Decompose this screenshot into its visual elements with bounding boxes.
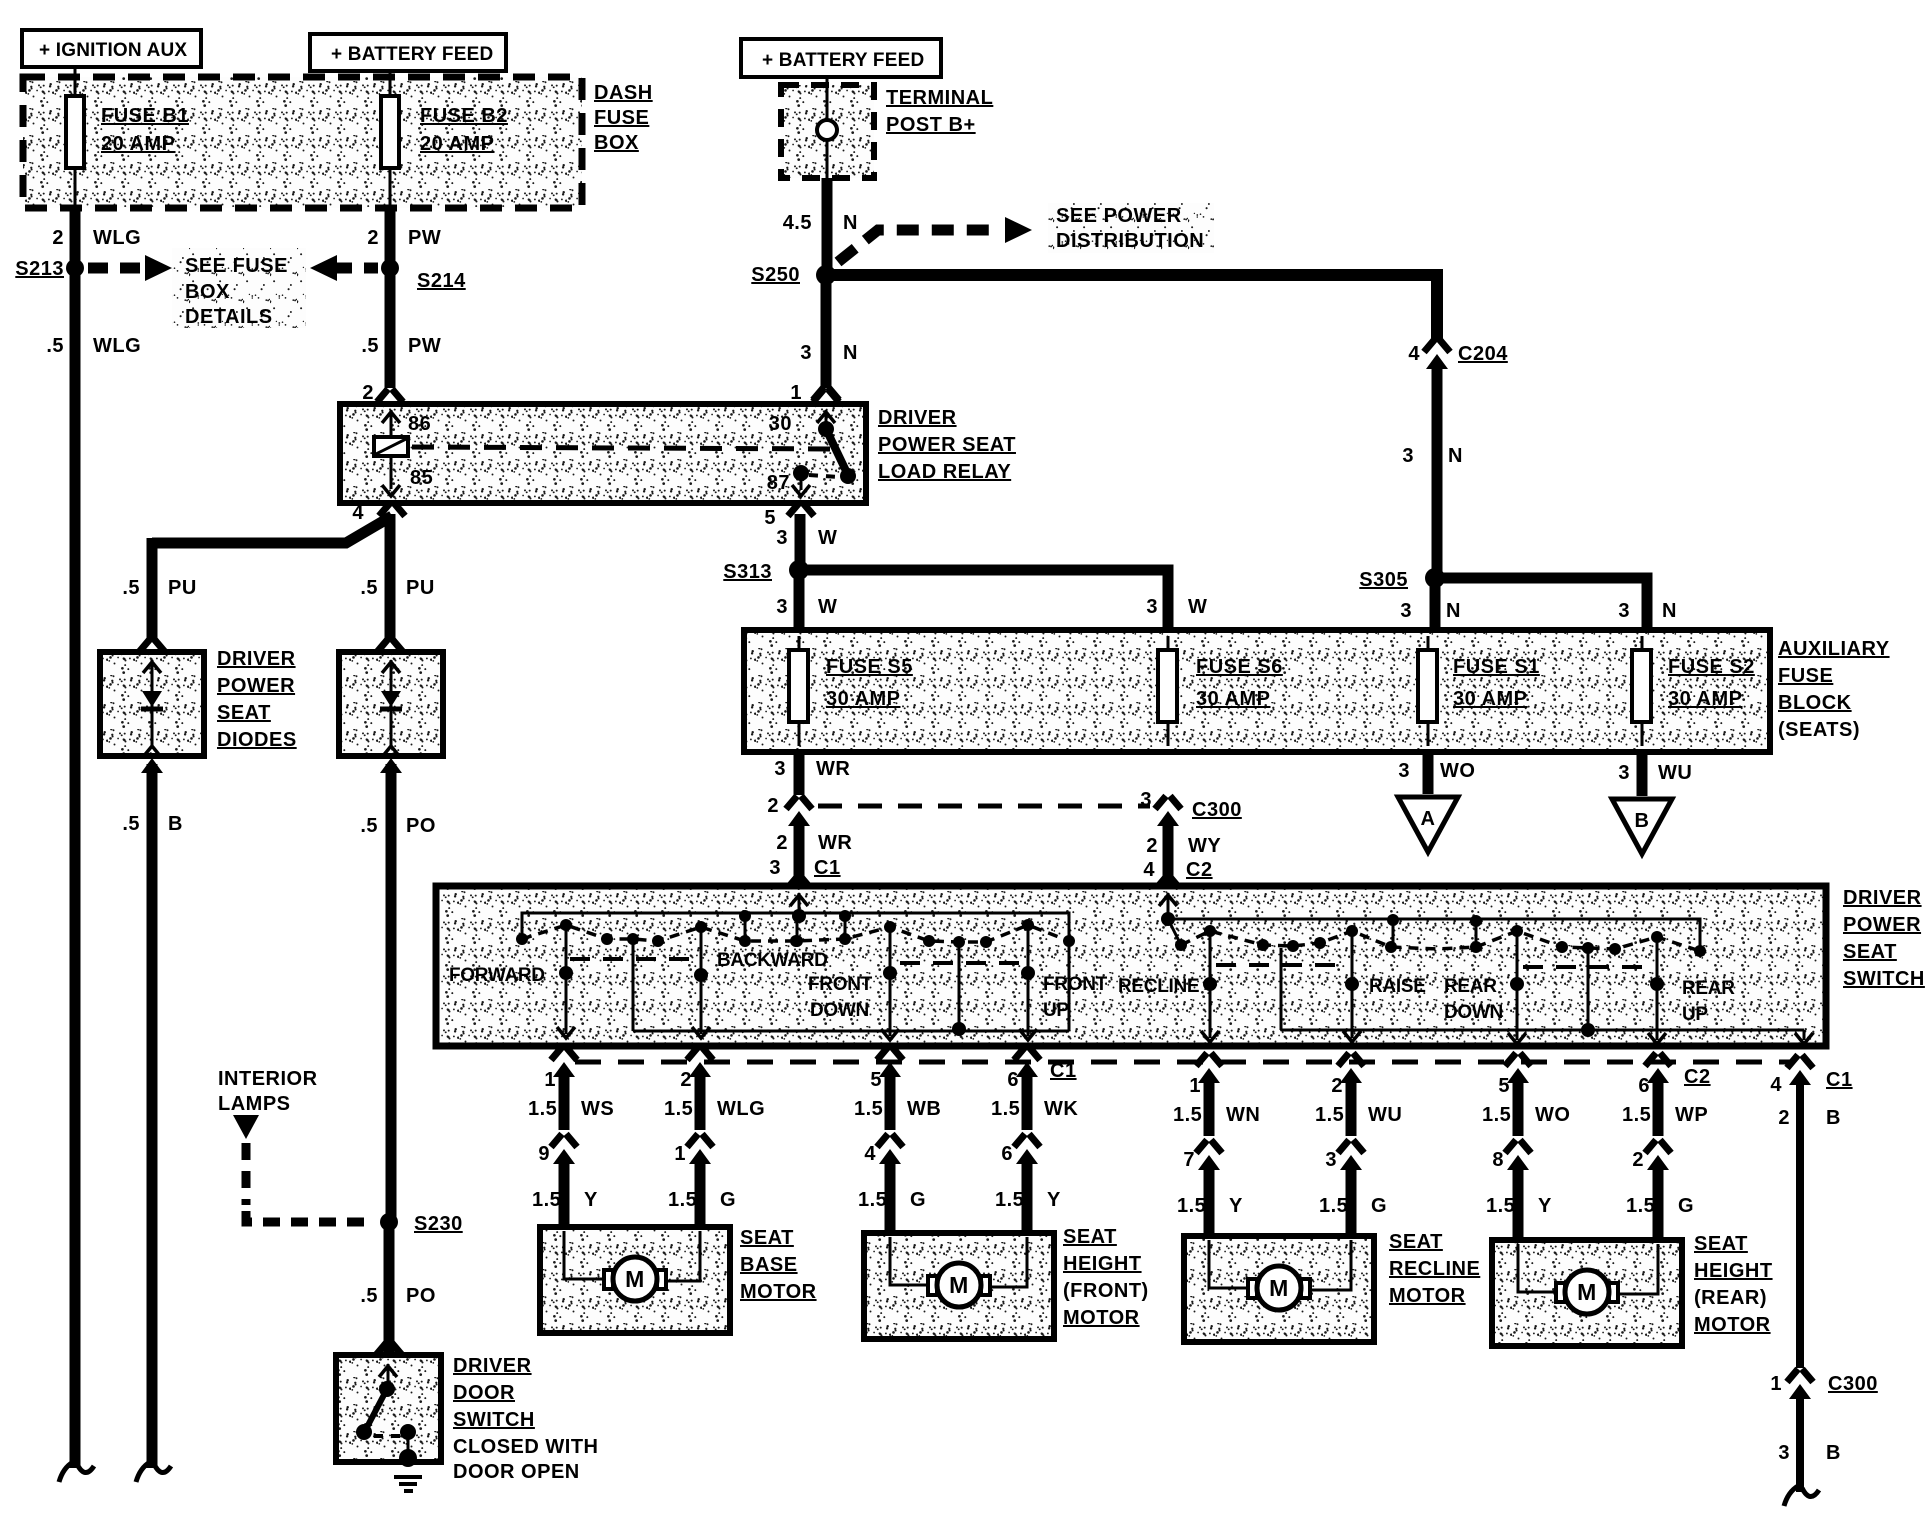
svg-text:WU: WU <box>1368 1104 1402 1126</box>
fuse S1 <box>1418 636 1437 746</box>
wire label .5 PW <box>361 335 441 357</box>
wire label 3 N upper <box>1402 445 1463 467</box>
svg-text:3: 3 <box>1400 600 1412 622</box>
svg-text:1.5: 1.5 <box>528 1098 557 1120</box>
relay contact <box>818 421 856 484</box>
fuse S6 value label <box>1196 656 1283 710</box>
door switch connector in <box>376 1342 402 1355</box>
fuse block label <box>1778 638 1890 741</box>
seat recline motor label <box>1389 1231 1480 1307</box>
wire C204 to S305 (3 N) <box>1432 364 1443 574</box>
wire S230 to door switch (.5 PO) <box>384 1227 395 1352</box>
wire label 4.5 N <box>783 212 858 234</box>
svg-text:G: G <box>910 1189 926 1211</box>
switch output REAR DOWN <box>1444 936 1526 1044</box>
wire label .5 PU (right) <box>360 577 434 599</box>
wire C300 to body ground (3 B) <box>1796 1394 1804 1492</box>
switch feed bus left <box>522 910 1069 938</box>
svg-text:C300: C300 <box>1192 799 1242 821</box>
switch pin 2 WLG wire and connectors <box>664 1047 765 1231</box>
svg-text:6: 6 <box>1007 1069 1019 1091</box>
svg-text:3: 3 <box>1325 1149 1337 1171</box>
connector C300 right <box>1155 796 1181 826</box>
svg-text:1.5: 1.5 <box>1486 1195 1515 1217</box>
switch pin 2 WU wire and connectors <box>1315 1053 1402 1237</box>
wire label .5 PU (left) <box>122 577 196 599</box>
terminal post circle <box>817 77 837 178</box>
svg-text:WLG: WLG <box>93 335 141 357</box>
svg-text:S305: S305 <box>1359 569 1408 591</box>
svg-text:S250: S250 <box>751 264 800 286</box>
relay pin 4 connector <box>352 502 405 524</box>
relay pin 85 <box>382 456 433 496</box>
svg-text:2: 2 <box>1146 835 1158 857</box>
svg-text:Y: Y <box>1538 1195 1552 1217</box>
switch output FRONT UP <box>1019 930 1108 1040</box>
fuse B1 value label <box>101 105 189 155</box>
diode D2 connector in <box>377 639 403 652</box>
svg-text:PU: PU <box>168 577 197 599</box>
diode D2 symbol <box>380 660 402 757</box>
door switch label <box>453 1355 599 1483</box>
svg-text:B: B <box>1826 1442 1841 1464</box>
svg-text:N: N <box>1448 445 1463 467</box>
svg-text:PU: PU <box>406 577 435 599</box>
fuse S5 <box>789 636 808 746</box>
svg-text:DISTRIBUTION: DISTRIBUTION <box>1056 230 1204 252</box>
svg-text:1.5: 1.5 <box>1177 1195 1206 1217</box>
svg-text:FUSE: FUSE <box>594 107 649 129</box>
wire pin4 to C300 (2 B) <box>1796 1080 1804 1368</box>
svg-text:DOOR OPEN: DOOR OPEN <box>453 1461 580 1483</box>
svg-text:30 AMP: 30 AMP <box>1196 688 1271 710</box>
wire label 2 WR <box>776 832 852 854</box>
interior lamps arrow <box>233 1115 259 1139</box>
svg-text:N: N <box>1662 600 1677 622</box>
wire S250 to C204 (N) <box>832 275 1437 342</box>
svg-text:2: 2 <box>1632 1149 1644 1171</box>
switch dashed bar right <box>1216 965 1653 967</box>
fuse S2 <box>1632 636 1651 746</box>
svg-text:N: N <box>843 342 858 364</box>
svg-text:DRIVER: DRIVER <box>878 407 957 429</box>
svg-text:3: 3 <box>1402 445 1414 467</box>
svg-text:WR: WR <box>816 758 850 780</box>
node S213 <box>15 258 84 280</box>
svg-text:BACKWARD: BACKWARD <box>717 950 828 971</box>
svg-text:20 AMP: 20 AMP <box>101 133 176 155</box>
svg-text:POWER SEAT: POWER SEAT <box>878 434 1016 456</box>
svg-text:MOTOR: MOTOR <box>740 1281 817 1303</box>
svg-text:FRONT: FRONT <box>1043 974 1108 995</box>
seat height rear motor label <box>1694 1233 1773 1336</box>
switch feed C1 entry <box>790 893 808 947</box>
switch pins dashed connector line <box>575 1060 1790 1065</box>
svg-text:FUSE S2: FUSE S2 <box>1668 656 1755 678</box>
svg-text:4: 4 <box>1408 343 1420 365</box>
svg-text:3: 3 <box>1778 1442 1790 1464</box>
wire label 2 WY <box>1146 835 1221 857</box>
svg-text:BOX: BOX <box>185 281 230 303</box>
svg-text:C2: C2 <box>1684 1066 1711 1088</box>
wire fuse S5 out (3 WR) <box>794 752 805 795</box>
svg-text:1.5: 1.5 <box>1482 1104 1511 1126</box>
seat base motor M1 <box>540 1227 730 1333</box>
switch pin 5 WO wire and connectors <box>1482 1053 1570 1237</box>
svg-text:UP: UP <box>1682 1004 1708 1025</box>
node + BATTERY FEED (left) <box>310 34 506 71</box>
svg-text:(REAR): (REAR) <box>1694 1287 1767 1309</box>
svg-text:G: G <box>720 1189 736 1211</box>
svg-text:DRIVER: DRIVER <box>217 648 296 670</box>
connector C300 labels <box>1140 789 1241 821</box>
svg-text:.5: .5 <box>360 815 378 837</box>
svg-text:(SEATS): (SEATS) <box>1778 719 1860 741</box>
svg-text:FORWARD: FORWARD <box>449 965 545 986</box>
seat height front motor label <box>1063 1226 1149 1329</box>
switch feed bus right <box>1168 914 1700 946</box>
svg-text:WR: WR <box>818 832 852 854</box>
svg-text:WS: WS <box>581 1098 614 1120</box>
switch movable contact dashed left <box>516 919 1075 948</box>
relay driver power seat load relay box <box>340 404 866 503</box>
switch output BACKWARD <box>694 932 828 1034</box>
connector C2 label (pin 6 right) <box>1684 1066 1711 1088</box>
svg-text:POST B+: POST B+ <box>886 114 976 136</box>
relay pin 30 <box>769 410 835 435</box>
svg-text:4: 4 <box>352 502 364 524</box>
wire label 3 WU <box>1618 762 1692 784</box>
svg-text:3: 3 <box>1618 762 1630 784</box>
relay pin 5 connector <box>764 503 814 529</box>
switch pin 1 WN wire and connectors <box>1173 1053 1260 1237</box>
svg-text:1.5: 1.5 <box>664 1098 693 1120</box>
svg-text:C2: C2 <box>1186 859 1213 881</box>
fuse S2 value label <box>1668 656 1755 710</box>
svg-text:4: 4 <box>1143 859 1155 881</box>
svg-text:5: 5 <box>764 507 776 529</box>
svg-text:SEAT: SEAT <box>1389 1231 1443 1253</box>
svg-text:SEAT: SEAT <box>217 702 271 724</box>
svg-text:WY: WY <box>1188 835 1221 857</box>
svg-text:FUSE B2: FUSE B2 <box>420 105 508 127</box>
wire label 3 N feed <box>800 342 858 364</box>
svg-text:2: 2 <box>680 1069 692 1091</box>
fuse S6 <box>1158 636 1177 746</box>
wire S250 to relay pin 1 (3 N) <box>813 281 839 400</box>
switch output RAISE <box>1343 936 1426 1042</box>
svg-text:WLG: WLG <box>93 227 141 249</box>
wire relay pin 5 to S313 (3 W) <box>795 514 806 566</box>
wire diode 2 out (.5 PO) <box>380 758 402 1218</box>
svg-text:MOTOR: MOTOR <box>1063 1307 1140 1329</box>
wire label .5 B <box>122 813 183 835</box>
svg-text:1.5: 1.5 <box>668 1189 697 1211</box>
wire relay 85 to diode 2 (.5 PU) <box>385 514 396 642</box>
note SEE FUSE BOX DETAILS <box>172 248 306 328</box>
svg-text:WN: WN <box>1226 1104 1260 1126</box>
svg-text:30 AMP: 30 AMP <box>1668 688 1743 710</box>
svg-text:HEIGHT: HEIGHT <box>1694 1260 1773 1282</box>
svg-text:WO: WO <box>1440 760 1475 782</box>
diode D1 connector in <box>139 639 165 652</box>
fuse B1 <box>66 96 84 168</box>
svg-text:DOWN: DOWN <box>810 1000 869 1021</box>
wire label 2 WLG <box>52 227 141 249</box>
node + BATTERY FEED (center) <box>741 39 941 77</box>
switch lower link right <box>1281 948 1813 1044</box>
svg-text:SWITCH: SWITCH <box>453 1409 535 1431</box>
svg-text:BASE: BASE <box>740 1254 798 1276</box>
svg-text:1.5: 1.5 <box>1626 1195 1655 1217</box>
svg-text:G: G <box>1678 1195 1694 1217</box>
svg-text:85: 85 <box>410 467 433 489</box>
connector B triangle <box>1612 799 1672 854</box>
note SEE POWER DISTRIBUTION <box>1048 203 1214 253</box>
svg-text:AUXILIARY: AUXILIARY <box>1778 638 1890 660</box>
svg-text:G: G <box>1371 1195 1387 1217</box>
switch output REAR UP <box>1648 941 1735 1044</box>
svg-text:7: 7 <box>1183 1149 1195 1171</box>
svg-text:3: 3 <box>774 758 786 780</box>
switch pin 6 WK wire and connectors <box>991 1047 1078 1231</box>
svg-text:3: 3 <box>1618 600 1630 622</box>
svg-text:30 AMP: 30 AMP <box>1453 688 1528 710</box>
svg-text:SEE FUSE: SEE FUSE <box>185 255 288 277</box>
svg-text:WU: WU <box>1658 762 1692 784</box>
svg-text:1.5: 1.5 <box>1173 1104 1202 1126</box>
svg-text:DRIVER: DRIVER <box>453 1355 532 1377</box>
terminal post label <box>886 87 993 136</box>
svg-text:DASH: DASH <box>594 82 653 104</box>
svg-text:2: 2 <box>1331 1075 1343 1097</box>
svg-text:3: 3 <box>1398 760 1410 782</box>
svg-text:FUSE S5: FUSE S5 <box>826 656 913 678</box>
door switch contacts <box>356 1364 416 1458</box>
svg-text:SEAT: SEAT <box>1843 941 1897 963</box>
svg-text:.5: .5 <box>46 335 64 357</box>
svg-text:4.5: 4.5 <box>783 212 812 234</box>
interior lamps label <box>218 1068 318 1115</box>
seat height rear motor M4 <box>1492 1240 1682 1346</box>
svg-text:M: M <box>625 1266 645 1292</box>
switch dashed bar left <box>570 959 1024 963</box>
ground <box>394 1449 422 1491</box>
svg-text:3: 3 <box>776 527 788 549</box>
wire C300 to switch C2 (WY) <box>1163 821 1174 883</box>
wire label .5 WLG <box>46 335 141 357</box>
diode D1 symbol <box>141 660 163 757</box>
wire label 3 N (S1) <box>1400 600 1461 622</box>
svg-text:MOTOR: MOTOR <box>1389 1285 1466 1307</box>
svg-text:1.5: 1.5 <box>854 1098 883 1120</box>
svg-text:8: 8 <box>1492 1149 1504 1171</box>
svg-text:4: 4 <box>1770 1074 1782 1096</box>
svg-text:DOOR: DOOR <box>453 1382 515 1404</box>
svg-text:C1: C1 <box>1050 1060 1077 1082</box>
switch lower link left <box>633 944 1069 1036</box>
svg-text:2: 2 <box>362 382 374 404</box>
svg-text:WK: WK <box>1044 1098 1078 1120</box>
svg-text:PW: PW <box>408 227 441 249</box>
svg-text:B: B <box>168 813 183 835</box>
wire terminal post to S250 (4.5 N) <box>822 178 833 270</box>
svg-text:DIODES: DIODES <box>217 729 297 751</box>
svg-text:SEAT: SEAT <box>1063 1226 1117 1248</box>
svg-text:A: A <box>1421 808 1436 830</box>
wire fuse S2 out (3 WU) <box>1637 752 1648 796</box>
svg-text:W: W <box>818 596 837 618</box>
svg-text:3: 3 <box>1140 789 1152 811</box>
svg-text:+ IGNITION AUX: + IGNITION AUX <box>39 40 187 61</box>
svg-text:1: 1 <box>674 1143 686 1165</box>
svg-text:20 AMP: 20 AMP <box>420 133 495 155</box>
svg-text:FRONT: FRONT <box>808 974 873 995</box>
svg-text:1: 1 <box>544 1069 556 1091</box>
svg-text:1.5: 1.5 <box>1315 1104 1344 1126</box>
wire end hook second <box>136 1462 171 1482</box>
wire label .5 PO <box>360 815 436 837</box>
svg-text:1.5: 1.5 <box>991 1098 1020 1120</box>
seat recline motor M3 <box>1184 1236 1374 1342</box>
svg-text:WO: WO <box>1535 1104 1570 1126</box>
svg-text:M: M <box>1269 1275 1289 1301</box>
svg-text:TERMINAL: TERMINAL <box>886 87 993 109</box>
svg-text:RECLINE: RECLINE <box>1389 1258 1480 1280</box>
svg-text:(FRONT): (FRONT) <box>1063 1280 1149 1302</box>
relay coil dashed link <box>412 447 842 449</box>
svg-text:M: M <box>1577 1279 1597 1305</box>
svg-text:INTERIOR: INTERIOR <box>218 1068 318 1090</box>
dashed arrow to power distribution note <box>838 217 1032 262</box>
wire diode 1 out (.5 B) <box>141 758 163 1468</box>
diode label DRIVER POWER SEAT DIODES <box>217 648 297 751</box>
switch output RECLINE <box>1118 936 1219 1042</box>
svg-text:5: 5 <box>870 1069 882 1091</box>
svg-text:W: W <box>818 527 837 549</box>
node + IGNITION AUX feed <box>22 30 201 67</box>
switch movable contact dashed right <box>1175 925 1706 957</box>
switch pin 6 WP wire and connectors <box>1622 1053 1708 1237</box>
switch output FRONT DOWN <box>808 932 899 1040</box>
svg-text:UP: UP <box>1043 1000 1069 1021</box>
svg-text:MOTOR: MOTOR <box>1694 1314 1771 1336</box>
svg-text:87: 87 <box>767 472 790 494</box>
svg-text:.5: .5 <box>360 577 378 599</box>
svg-text:C204: C204 <box>1458 343 1508 365</box>
wire label 2 PW <box>367 227 441 249</box>
wire fuse B1 to S213 (2 WLG) <box>74 168 77 268</box>
svg-text:6: 6 <box>1638 1075 1650 1097</box>
switch backward arrow <box>692 1027 710 1038</box>
svg-text:SEAT: SEAT <box>740 1227 794 1249</box>
svg-text:1.5: 1.5 <box>1319 1195 1348 1217</box>
svg-text:REAR: REAR <box>1682 978 1735 999</box>
svg-text:1.5: 1.5 <box>858 1189 887 1211</box>
fuse S1 value label <box>1453 656 1540 710</box>
dash fuse box label <box>594 82 653 154</box>
svg-text:POWER: POWER <box>217 675 295 697</box>
svg-text:2: 2 <box>52 227 64 249</box>
switch feed C2 entry <box>1159 893 1180 943</box>
svg-text:B: B <box>1826 1107 1841 1129</box>
svg-text:.5: .5 <box>360 1285 378 1307</box>
diode D2 box <box>339 652 443 756</box>
wire C300 to switch C1 (WR) <box>794 821 805 883</box>
svg-text:B: B <box>1635 810 1650 832</box>
svg-text:3: 3 <box>769 857 781 879</box>
dash fuse box <box>23 77 582 208</box>
svg-text:.5: .5 <box>122 813 140 835</box>
svg-text:9: 9 <box>538 1143 550 1165</box>
svg-text:DETAILS: DETAILS <box>185 306 273 328</box>
connector C1 label (pin 6) <box>1050 1060 1077 1082</box>
svg-text:FUSE: FUSE <box>1778 665 1833 687</box>
switch output FORWARD <box>449 930 575 1038</box>
svg-text:Y: Y <box>1047 1189 1061 1211</box>
svg-text:SEAT: SEAT <box>1694 1233 1748 1255</box>
wire label 3 WO <box>1398 760 1475 782</box>
wire label 3 N (S2) <box>1618 600 1677 622</box>
fuse B2 <box>381 96 399 168</box>
connector C1 pin 3 <box>769 857 840 890</box>
svg-text:+ BATTERY FEED: + BATTERY FEED <box>331 44 493 65</box>
wire S305 to fuse S1 (3 N) <box>1430 584 1441 632</box>
svg-text:3: 3 <box>800 342 812 364</box>
wire label 3 W feed <box>776 527 837 549</box>
door switch box <box>336 1355 441 1462</box>
svg-text:POWER: POWER <box>1843 914 1921 936</box>
svg-text:PO: PO <box>406 815 436 837</box>
svg-text:HEIGHT: HEIGHT <box>1063 1253 1142 1275</box>
wire fuse S1 out (3 WO) <box>1423 752 1434 794</box>
connector C204 <box>1408 339 1508 369</box>
driver power seat switch box <box>436 886 1826 1046</box>
svg-text:30 AMP: 30 AMP <box>826 688 901 710</box>
wire ignition aux to fuse B1 <box>74 67 77 98</box>
connector C2 pin 4 <box>1143 859 1212 890</box>
svg-text:1.5: 1.5 <box>532 1189 561 1211</box>
switch pin 1 WS wire and connectors <box>528 1047 614 1231</box>
wire label 3 W (S6) <box>1146 596 1207 618</box>
svg-text:6: 6 <box>1001 1143 1013 1165</box>
fuse S5 value label <box>826 656 913 710</box>
wire label 3 B <box>1778 1442 1841 1464</box>
node S250 <box>751 264 836 286</box>
svg-text:SWITCH: SWITCH <box>1843 968 1925 990</box>
svg-text:LAMPS: LAMPS <box>218 1093 291 1115</box>
connector A triangle <box>1398 797 1458 852</box>
svg-text:BLOCK: BLOCK <box>1778 692 1852 714</box>
wire label .5 PO lower <box>360 1285 436 1307</box>
dashed connector line C300 <box>818 804 1150 809</box>
svg-text:.5: .5 <box>122 577 140 599</box>
node S230 <box>380 1213 463 1235</box>
svg-text:N: N <box>1446 600 1461 622</box>
connector C300 left <box>767 795 812 826</box>
svg-text:BOX: BOX <box>594 132 639 154</box>
svg-text:N: N <box>843 212 858 234</box>
svg-text:WP: WP <box>1675 1104 1708 1126</box>
svg-text:W: W <box>1188 596 1207 618</box>
svg-text:WB: WB <box>907 1098 941 1120</box>
dashed wire interior lamps to S230 <box>246 1143 372 1222</box>
svg-text:1: 1 <box>790 382 802 404</box>
svg-text:SEE POWER: SEE POWER <box>1056 205 1182 227</box>
wire battery feed to fuse B2 <box>389 71 392 98</box>
svg-text:CLOSED WITH: CLOSED WITH <box>453 1436 599 1458</box>
svg-text:RAISE: RAISE <box>1369 976 1426 997</box>
